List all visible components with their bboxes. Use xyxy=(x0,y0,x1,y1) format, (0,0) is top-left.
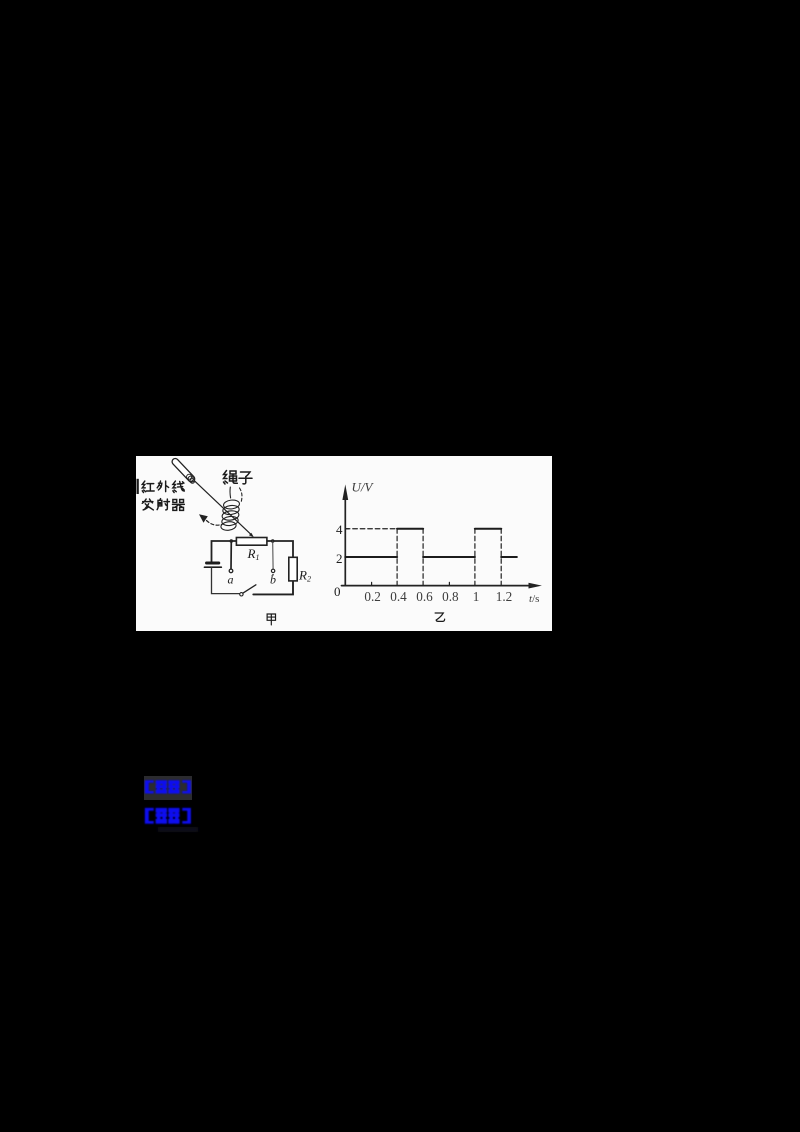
swing arrow head xyxy=(199,514,208,523)
caption 乙 xyxy=(435,613,445,621)
svg-text:0.2: 0.2 xyxy=(364,589,380,604)
blue label 【分析】 xyxy=(145,808,191,824)
wire battery to bottom xyxy=(212,568,240,594)
emitter tip coil xyxy=(185,473,196,484)
faint underline smudge xyxy=(158,827,198,832)
junction dot left xyxy=(230,539,234,543)
junction dot right xyxy=(271,539,275,543)
wire top right xyxy=(267,541,293,557)
wire to terminal a xyxy=(230,541,232,569)
label 绳子 xyxy=(224,471,253,485)
caption 甲 xyxy=(267,614,275,625)
wire to terminal b xyxy=(272,541,274,569)
svg-text:U/V: U/V xyxy=(352,480,375,495)
blue label 【答案】 xyxy=(145,780,191,793)
svg-text:0.8: 0.8 xyxy=(442,589,459,604)
svg-text:t/s: t/s xyxy=(529,593,539,605)
terminal b dot xyxy=(272,574,274,576)
waveform 4V pulse 1 xyxy=(397,528,423,530)
swing arrow dashed tail xyxy=(207,521,224,526)
x tick 0.8 xyxy=(448,582,450,585)
svg-text:0.6: 0.6 xyxy=(416,589,433,604)
waveform 2V segment 3 xyxy=(501,556,517,558)
svg-text:b: b xyxy=(270,573,276,587)
switch pivot xyxy=(240,593,243,596)
y-axis arrowhead xyxy=(342,484,348,500)
dashed level 4V xyxy=(345,528,397,530)
answer highlight strip xyxy=(144,776,192,800)
wire bottom right xyxy=(253,581,293,595)
wiper arrowhead xyxy=(249,533,254,537)
graph x-axis xyxy=(342,585,531,587)
rheostat R1 body xyxy=(236,538,267,546)
dashed vertical t=1 xyxy=(474,529,476,586)
x tick 0.2 xyxy=(371,582,373,585)
waveform 2V segment 2 xyxy=(423,556,475,558)
waveform 2V segment 1 xyxy=(345,556,397,558)
rope dashed curve xyxy=(240,488,242,503)
svg-text:1: 1 xyxy=(473,589,480,604)
label 红外线 xyxy=(142,481,184,492)
white figure panel xyxy=(136,456,552,631)
svg-text:a: a xyxy=(228,573,234,587)
rope leader line xyxy=(229,487,232,498)
waveform 4V pulse 2 xyxy=(475,528,501,530)
svg-text:1.2: 1.2 xyxy=(496,589,512,604)
panel edge tick xyxy=(137,479,139,494)
wiper beam line from emitter to rheostat xyxy=(195,481,251,534)
svg-text:4: 4 xyxy=(336,522,343,537)
dashed vertical t=1.2 xyxy=(500,529,502,586)
resistor R2 body xyxy=(289,557,297,581)
terminal b circle xyxy=(271,569,274,572)
dashed vertical t=0.4 xyxy=(396,529,398,586)
label 发射器 xyxy=(142,499,184,511)
spring coil xyxy=(220,499,240,531)
battery xyxy=(205,563,222,567)
svg-text:0.4: 0.4 xyxy=(390,589,407,604)
x-axis arrowhead xyxy=(529,583,542,589)
svg-text:2: 2 xyxy=(336,551,343,566)
wire top left xyxy=(212,541,237,563)
terminal a circle xyxy=(229,569,233,573)
graph y-axis xyxy=(344,498,346,586)
y tick 4 xyxy=(345,528,348,530)
svg-text:0: 0 xyxy=(334,584,341,599)
switch blade xyxy=(243,585,256,593)
infrared emitter rod xyxy=(171,457,196,483)
dashed vertical t=0.6 xyxy=(422,529,424,586)
